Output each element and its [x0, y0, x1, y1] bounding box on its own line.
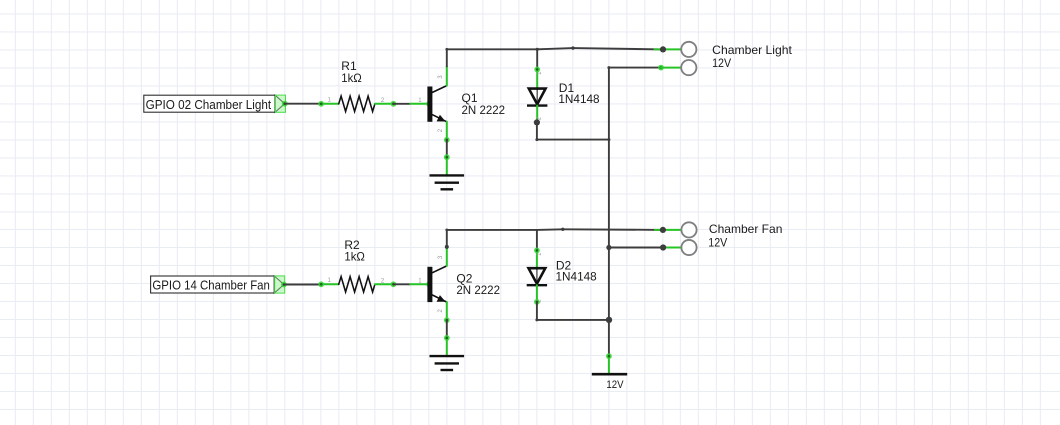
connector P1 pin 1 leg — [655, 48, 682, 50]
transistor Q1 emitter stroke — [432, 115, 446, 122]
transistor Q2 base terminal — [426, 281, 432, 287]
transistor Q1 emitter terminal — [444, 137, 450, 143]
transistor Q1 body bar — [427, 87, 432, 122]
node top rail D1 tap — [536, 48, 539, 51]
svg-text:1kΩ: 1kΩ — [341, 71, 362, 85]
diode D1 pin 2 leg — [536, 106, 538, 120]
power symbol 12V bar — [592, 373, 627, 376]
net label GPIO 14 Chamber Fan box — [151, 276, 285, 293]
svg-text:1N4148: 1N4148 — [556, 270, 598, 284]
transistor Q1 emitter pin leg — [446, 122, 448, 140]
net label GPIO 02 Chamber Light pin terminal — [282, 101, 288, 107]
power symbol 12V leg — [608, 356, 610, 375]
wire Q1 collector up — [446, 49, 448, 66]
transistor Q2 emitter stroke — [432, 295, 446, 302]
svg-text:Chamber Fan: Chamber Fan — [709, 222, 783, 236]
transistor Q2 emitter terminal — [444, 317, 450, 323]
wire Q1 emitter to ground — [446, 140, 448, 157]
node corner D1 bottom — [535, 138, 538, 141]
diode D2 triangle — [529, 268, 546, 284]
wire D2 cathode down — [536, 302, 538, 320]
svg-text:2: 2 — [438, 309, 444, 313]
junction 12V rail and D2 return — [606, 317, 612, 323]
svg-text:3: 3 — [438, 75, 444, 79]
wire GPIO14 to R2 — [284, 284, 321, 286]
resistor R1 zigzag body — [339, 96, 375, 111]
node top rail bendpoint — [571, 46, 574, 49]
wire lower rail D2 to bend — [537, 228, 563, 231]
resistor R1 pin 2 leg — [375, 103, 394, 105]
diode D2 pin 1 terminal — [534, 248, 540, 254]
ground symbol GND1 leg — [446, 157, 448, 176]
resistor R2 pin 2 leg — [375, 283, 394, 285]
wire D1 anode stem — [536, 49, 538, 68]
transistor Q1 collector stroke — [432, 86, 446, 93]
diode D1 internal lead — [536, 90, 538, 105]
wire D2 corner to 12V rail — [537, 319, 609, 321]
wire R1 to Q1 base — [393, 103, 410, 105]
node Q1 collector top corner — [445, 48, 448, 51]
net label GPIO 02 Chamber Light box — [144, 95, 286, 112]
diode D1 triangle — [529, 89, 546, 105]
power symbol 12V terminal — [606, 353, 612, 359]
junction rail at P2 pin2 row — [606, 245, 611, 250]
connector P2 pin 2 leg — [663, 247, 682, 249]
svg-text:2N 2222: 2N 2222 — [456, 283, 500, 297]
wire lower rail bend to junction — [563, 228, 663, 231]
transistor Q1 collector pin leg — [446, 66, 448, 85]
svg-text:12V: 12V — [606, 379, 624, 391]
wire GPIO02 to R1 — [285, 103, 322, 105]
wire top rail D1 to bend — [537, 48, 573, 49]
connector P2 pin 1 leg — [655, 229, 682, 231]
transistor Q1 emitter arrow — [437, 115, 446, 122]
junction J1 Chamber Light pin1 — [660, 46, 666, 52]
diode D2 cathode bar — [527, 284, 547, 286]
node corner D2 bottom — [535, 318, 538, 321]
connector P1 pin 2 terminal — [658, 65, 664, 71]
transistor Q2 collector stroke — [432, 266, 446, 273]
connector P2 pin 2 ring (12V) — [681, 240, 696, 255]
ground symbol GND1 terminal — [444, 154, 450, 160]
svg-text:1N4148: 1N4148 — [558, 92, 600, 106]
resistor R2 pin 2 terminal — [391, 281, 397, 287]
wire R2 to Q2 base — [393, 283, 410, 285]
transistor Q2 base pin leg — [410, 283, 429, 285]
node rail joins D1 wire — [607, 138, 610, 141]
wire D1 corner to 12V rail — [537, 139, 609, 141]
resistor R2 pin 1 terminal — [318, 281, 324, 287]
node D1 cathode junction dot — [534, 119, 540, 125]
resistor R1 pin 2 terminal — [391, 101, 397, 107]
junction J2 Chamber Fan pin1 — [660, 227, 666, 233]
diode D1 pin 1 terminal — [534, 67, 540, 73]
net label GPIO 14 Chamber Fan pin terminal — [281, 282, 287, 288]
transistor Q1 base pin leg — [410, 103, 429, 105]
wire D2 anode stem — [536, 230, 538, 250]
wire 12V rail vertical — [608, 68, 610, 356]
wire 12V rail to P2 pin2 — [609, 247, 663, 249]
svg-text:1kΩ: 1kΩ — [344, 250, 365, 264]
diode D2 internal lead — [536, 270, 538, 285]
wire lower rail Q2 to D2 — [447, 229, 537, 231]
node D2 cathode terminal — [534, 299, 540, 305]
connector P1 pin 2 ring (12V) — [681, 60, 696, 75]
ground symbol GND2 leg — [446, 338, 448, 357]
junction P2 pin2 — [660, 244, 666, 250]
ground symbol GND2 terminal — [444, 335, 450, 341]
connector P1 pin 1 ring (Chamber Light) — [681, 42, 696, 57]
diode D2 pin 1 leg — [536, 250, 538, 270]
diode D1 cathode bar — [527, 104, 547, 106]
diode D1 pin 1 leg — [536, 69, 538, 90]
svg-text:GPIO 02 Chamber Light: GPIO 02 Chamber Light — [146, 97, 272, 112]
resistor R2 zigzag body — [339, 277, 375, 292]
diode D2 pin 2 leg — [536, 285, 538, 302]
svg-text:12V: 12V — [712, 56, 731, 70]
connector P2 pin 1 ring (Chamber Fan) — [681, 222, 696, 237]
transistor Q1 base terminal — [426, 101, 432, 107]
wire top rail Q1 to D1 — [447, 48, 537, 50]
svg-text:1: 1 — [328, 278, 332, 284]
resistor R1 pin 1 leg — [321, 103, 339, 105]
wire D1 cathode down — [536, 122, 538, 139]
wire 12V rail to P1 pin2 — [609, 67, 661, 69]
ground symbol GND1 bars — [430, 175, 465, 189]
transistor Q2 body bar — [427, 267, 432, 302]
wire top rail bend to junction — [573, 48, 663, 49]
node Q2 collector bendpoint — [445, 245, 449, 249]
svg-text:2: 2 — [438, 128, 444, 132]
transistor Q2 emitter pin leg — [446, 302, 448, 320]
svg-text:12V: 12V — [708, 236, 727, 250]
connector P1 pin 2 leg — [661, 67, 682, 69]
ground symbol GND2 bars — [430, 356, 465, 370]
node Q2 collector top corner — [445, 229, 448, 232]
wire Q2 emitter to ground — [446, 320, 448, 338]
wire Q2 collector up — [446, 230, 448, 247]
svg-text:2N 2222: 2N 2222 — [462, 103, 506, 117]
transistor Q2 emitter arrow — [437, 295, 446, 302]
node rail corner at P1 pin2 row — [607, 66, 610, 69]
node lower rail bendpoint — [561, 228, 564, 231]
svg-text:GPIO 14 Chamber Fan: GPIO 14 Chamber Fan — [152, 278, 270, 293]
transistor Q2 collector pin leg — [446, 247, 448, 266]
svg-text:1: 1 — [328, 98, 332, 104]
resistor R1 pin 1 terminal — [318, 101, 324, 107]
svg-text:3: 3 — [438, 255, 444, 259]
resistor R2 pin 1 leg — [321, 283, 339, 285]
